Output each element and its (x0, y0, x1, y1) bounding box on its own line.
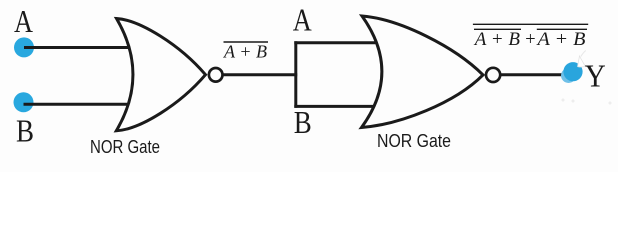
wire branch to U2 input B (294, 105, 373, 108)
sparkle highlight on node Y dot (578, 56, 586, 67)
NOR gate U2 inversion bubble (486, 68, 500, 82)
net label overline(A+B) (224, 41, 269, 43)
wire from U1 output to junction (223, 73, 298, 76)
svg-text:B: B (294, 104, 312, 140)
wire branch to U2 input A (294, 41, 376, 44)
node B terminal dot (14, 92, 34, 112)
NOR gate U1 body (116, 19, 205, 131)
wire B to gate 1 (24, 103, 128, 106)
NOR gate U1 inversion bubble (209, 68, 223, 82)
wire from U2 output to node Y (500, 73, 570, 76)
svg-text:B: B (16, 113, 34, 149)
inner bar over first A+B (474, 28, 521, 30)
svg-text:NOR Gate: NOR Gate (90, 137, 160, 157)
inner bar over second A+B (537, 28, 587, 30)
svg-text:A: A (14, 3, 33, 39)
wire A to gate 1 (24, 46, 129, 49)
faint specks (562, 99, 565, 102)
svg-text:NOR Gate: NOR Gate (377, 131, 451, 151)
node A terminal dot (14, 37, 34, 57)
svg-text:Y: Y (585, 57, 606, 93)
net label overline(overline(A+B)+overline(A+B)) outer bar (473, 23, 588, 25)
node Y terminal dot (glossy) (561, 68, 576, 83)
svg-text:A: A (293, 2, 312, 38)
svg-text:+: + (524, 30, 536, 50)
NOR gate U2 body (362, 16, 484, 128)
junction vertical wire (294, 41, 297, 108)
svg-text:A + B: A + B (535, 30, 585, 50)
svg-text:A + B: A + B (473, 30, 520, 50)
svg-text:A + B: A + B (223, 42, 267, 62)
